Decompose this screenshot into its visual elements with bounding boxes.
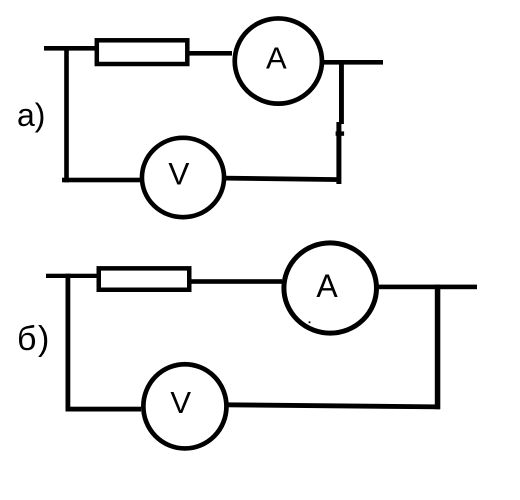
svg-text:А: А bbox=[266, 40, 287, 75]
wire: circuit a right vertical lower bbox=[336, 122, 341, 184]
resistor R2 (circuit b) bbox=[99, 268, 190, 289]
stray ink speck inside ammeter A2 bbox=[309, 321, 311, 323]
resistor R1 (circuit a) bbox=[97, 40, 188, 64]
svg-text:а): а) bbox=[17, 97, 45, 133]
wire: circuit a bottom-left to voltmeter bbox=[62, 178, 140, 183]
wire: circuit b right vertical bbox=[435, 285, 441, 410]
wire: circuit b top-right stub bbox=[377, 285, 477, 290]
svg-text:V: V bbox=[170, 385, 191, 420]
wire: circuit a left vertical bbox=[64, 46, 69, 182]
ammeter A1 (circuit a) bbox=[235, 18, 322, 103]
wire: circuit b voltmeter to right vertical bbox=[226, 405, 440, 407]
wire: circuit b left vertical bbox=[66, 274, 71, 412]
wire: circuit a top-right stub bbox=[322, 60, 383, 65]
ammeter A2 (circuit b) bbox=[284, 243, 377, 333]
voltmeter V2 (circuit b) bbox=[143, 364, 226, 448]
wire: circuit a right vertical upper bbox=[339, 60, 344, 124]
junction nub on right vertical bbox=[336, 131, 345, 135]
wire: circuit b bottom-left to voltmeter bbox=[66, 407, 142, 412]
wire: resistor R1 to ammeter bbox=[189, 51, 232, 56]
wire: resistor R2 to ammeter bbox=[189, 279, 282, 284]
wire: circuit a top-left stub bbox=[44, 46, 95, 51]
svg-text:V: V bbox=[168, 156, 189, 192]
wire: circuit a voltmeter to right vertical bbox=[224, 178, 341, 180]
svg-text:А: А bbox=[316, 268, 338, 304]
voltmeter V1 (circuit a) bbox=[142, 138, 224, 217]
wire: circuit b top-left stub bbox=[46, 274, 97, 278]
svg-text:б): б) bbox=[17, 320, 51, 358]
